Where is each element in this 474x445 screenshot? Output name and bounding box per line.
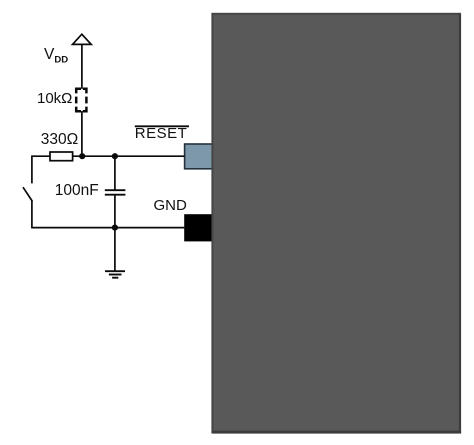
junction dot node RESET/R1	[79, 153, 85, 159]
RESET overline	[135, 125, 189, 127]
label VDD	[44, 46, 68, 66]
label 100nF	[55, 182, 99, 200]
power symbol VDD (triangle)	[73, 34, 92, 44]
capacitor C1 plates	[105, 189, 126, 191]
resistor R2 330 (body)	[50, 152, 73, 161]
label 330Ω	[41, 131, 78, 149]
microcontroller chip body U1	[212, 14, 461, 434]
wire: left vertical below switch	[31, 201, 33, 229]
wire: left vertical above switch	[31, 155, 33, 183]
label GND	[154, 197, 187, 214]
wire: capacitor bottom lead	[114, 195, 116, 228]
ground symbol	[105, 271, 125, 278]
wire: VDD stem into 10k resistor	[81, 44, 83, 89]
resistor R1 10k (dashed body)	[76, 89, 86, 111]
label 10kΩ	[37, 90, 72, 107]
wire: 10k resistor to RESET net	[81, 111, 83, 156]
junction dot node RESET/C1	[112, 153, 118, 159]
wire: capacitor top lead	[114, 156, 116, 190]
wire: ground stem	[114, 228, 116, 272]
wire: RESET net horizontal (node between R2, C1, RESET pin)	[32, 155, 185, 157]
wire: GND net horizontal	[32, 227, 185, 229]
label RESET	[135, 125, 188, 142]
junction dot node GND/C1	[112, 225, 118, 231]
pin pad GND	[184, 214, 216, 241]
pin pad RESET (pin 1)	[185, 144, 217, 169]
switch S1 blade	[23, 187, 32, 201]
